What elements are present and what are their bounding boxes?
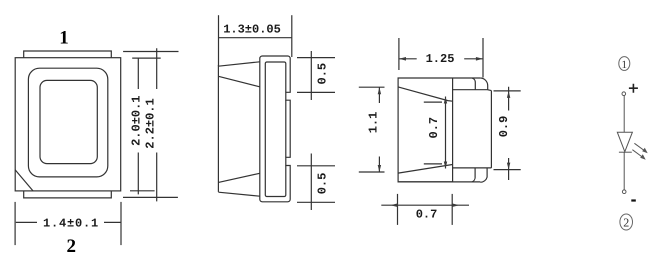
svg-text:1.1: 1.1 [367, 112, 381, 134]
end view: dimension 1.25 dimension line left segment with arrow [399, 58, 417, 60]
svg-text:0.7: 0.7 [416, 208, 438, 222]
front view: top electrode tab [24, 51, 112, 58]
svg-text:1.25: 1.25 [426, 52, 455, 66]
front view: outer reflector rounded rect [28, 68, 107, 177]
end view: dimension 1.1 bottom extension line [359, 171, 385, 173]
LED triangle (anode) [617, 132, 632, 152]
side view: dimension 0.5 top: lower extension line [297, 91, 335, 93]
end view: electrode plate outline [472, 78, 491, 182]
pin label circled 1 [619, 57, 630, 71]
dimension 2.2±0.1: bottom extension line (tab bottom) [123, 196, 178, 198]
end view: dimension 1.25 dimension line right segment with arrow [464, 58, 483, 60]
cathode terminal circle [622, 190, 626, 194]
end view: dimension 0.9 bottom extension line [494, 169, 521, 171]
side view: front face left edge [217, 65, 219, 192]
front view: cathode chamfer mark [15, 170, 33, 191]
end view: electrode plate inner top line [453, 78, 492, 91]
end view: lower cup slant [398, 165, 452, 174]
light emission arrow 2 [632, 150, 643, 158]
end view: dimension 0.7 bottom: dimension line with outside arrows [381, 204, 469, 206]
side view: dimension 0.5 top: dimension line [310, 51, 312, 100]
end view: cup opening lower shelf line [424, 163, 442, 165]
svg-text:2: 2 [623, 215, 629, 229]
side view: top edge slant [218, 62, 259, 66]
minus sign [631, 199, 636, 201]
end view: dimension 0.7 bottom: right extension line [451, 194, 453, 225]
svg-text:0.9: 0.9 [497, 116, 511, 138]
svg-text:0.5: 0.5 [315, 173, 329, 195]
svg-text:2: 2 [67, 236, 77, 257]
end view: dimension 1.1 top extension line [359, 86, 385, 88]
side view: lower reflector cup slant [218, 173, 259, 182]
dimension 1.4±0.1: left extension line [14, 202, 16, 245]
end view: body outline [398, 78, 480, 182]
front view: bottom electrode tab [24, 191, 112, 198]
svg-text:2.2±0.1: 2.2±0.1 [144, 98, 158, 148]
end view: dimension 1.25 right extension line [482, 38, 484, 78]
side view: bottom edge slant [218, 192, 259, 196]
end view: dimension 0.9 dimension line [508, 87, 510, 180]
end view: upper cup slant [398, 87, 452, 101]
end view: bottom edge [398, 181, 480, 183]
end view: electrode plate inner bottom line [453, 167, 492, 169]
dimension 2.2±0.1: top extension line (tab top) [123, 51, 178, 53]
side view: dimension 0.5 bottom: upper extension line [297, 165, 335, 167]
end view: cup opening upper shelf line [424, 101, 442, 103]
side view: dimension 0.5 bottom: dimension line [310, 154, 312, 211]
cathode wire [623, 152, 625, 190]
side view: dimension 0.5 bottom: lower extension line [297, 201, 335, 203]
side view: dimension 1.3±0.05 left extension line [218, 15, 220, 66]
end view: dimension 0.7 (cup) dimension line [445, 97, 447, 169]
dimension 2.0±0.1: top extension line (body top) [132, 57, 161, 59]
svg-text:1.3±0.05: 1.3±0.05 [223, 23, 281, 37]
pin label circled 2 [620, 214, 633, 230]
svg-text:0.7: 0.7 [427, 117, 441, 139]
end view: dimension 0.9 top extension line [494, 90, 521, 92]
light emission arrow 1 [634, 143, 645, 151]
svg-text:1: 1 [622, 59, 628, 71]
plus sign [629, 84, 638, 93]
anode wire [623, 96, 625, 133]
side view: dimension 1.3±0.05 dimension line [219, 37, 292, 39]
cathode bar [619, 151, 632, 153]
end view: dimension 1.25 left extension line [398, 38, 400, 70]
front view: package body outline [15, 58, 121, 191]
dimension 1.4±0.1: dimension line segments [16, 221, 121, 223]
dimension 2.0±0.1: bottom extension line (body bottom) [130, 190, 155, 192]
svg-text:1: 1 [59, 28, 69, 49]
side view: inner wall outline [265, 62, 286, 197]
front view: inner emitting window rounded rect [40, 80, 97, 163]
dimension 2.2±0.1: dimension line with text gap [156, 48, 158, 201]
svg-text:0.5: 0.5 [315, 63, 329, 85]
side view: package outer outline with electrode notches [260, 56, 290, 202]
side view: upper reflector cup slant [218, 76, 259, 87]
side view: dimension 0.5 top: upper extension line [297, 57, 335, 59]
end view: dimension 1.1 dimension line [378, 87, 380, 172]
svg-text:2.0±0.1: 2.0±0.1 [130, 95, 144, 145]
end view: dimension 0.7 bottom: left extension line [397, 194, 399, 225]
anode terminal circle [622, 92, 626, 96]
svg-text:1.4±0.1: 1.4±0.1 [43, 217, 99, 231]
dimension 1.4±0.1: right extension line [120, 202, 122, 245]
side view: dimension 1.3±0.05 right extension line [291, 15, 293, 57]
dimension 2.0±0.1: dimension line with text gap [137, 58, 139, 194]
LED symbol [617, 57, 647, 230]
